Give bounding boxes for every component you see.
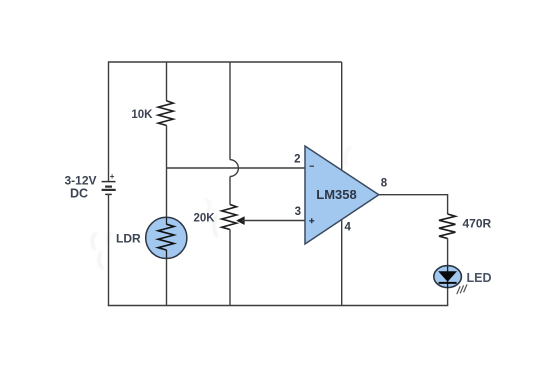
wire 10K branch upper	[166, 62, 168, 101]
potentiometer R3 20K	[222, 205, 237, 230]
wire inverting input pin2	[167, 167, 306, 169]
op-amp plus mark	[309, 218, 314, 223]
resistor R1 10K	[158, 101, 173, 126]
svg-text:470R: 470R	[463, 217, 492, 231]
wire pot lower lead	[229, 229, 231, 305]
pot wiper arrow	[237, 217, 245, 225]
wire pot branch upper	[229, 62, 231, 160]
wire left rail lower	[108, 194, 110, 306]
svg-text:20K: 20K	[194, 213, 216, 225]
svg-text:2: 2	[294, 153, 300, 165]
svg-text:10K: 10K	[131, 109, 153, 121]
svg-text:LED: LED	[467, 271, 492, 285]
wire LDR top lead	[166, 168, 168, 218]
op-amp U1 LM358	[305, 146, 379, 244]
wire top rail	[109, 61, 342, 63]
wire hop to pot	[229, 177, 231, 205]
wire output	[379, 194, 448, 196]
wire R1 bottom lead	[166, 125, 168, 168]
wire R4 to LED	[447, 238, 449, 266]
resistor R4 470R	[439, 214, 455, 239]
wire noninverting input pin3	[242, 220, 306, 222]
svg-text:LDR: LDR	[116, 232, 141, 246]
wire output corner down	[447, 194, 449, 214]
svg-text:3-12V: 3-12V	[64, 174, 96, 188]
LED light rays	[457, 284, 467, 294]
svg-text:4: 4	[345, 221, 352, 233]
LED D1	[434, 266, 462, 288]
wire bottom rail	[108, 305, 449, 307]
battery BT1	[102, 182, 116, 195]
smudge artifacts	[92, 147, 351, 269]
wire op-amp supply vertical	[341, 62, 343, 306]
wire LDR bottom lead	[166, 258, 168, 305]
svg-text:+: +	[110, 172, 115, 181]
wire hop over pin2 wire	[230, 160, 238, 177]
svg-text:8: 8	[381, 178, 388, 190]
op-amp minus mark	[310, 165, 315, 167]
svg-text:LM358: LM358	[316, 187, 356, 202]
svg-text:3: 3	[295, 206, 301, 218]
svg-text:DC: DC	[70, 187, 88, 201]
wire left rail upper	[108, 61, 110, 181]
LDR R2	[146, 217, 187, 258]
wire LED to bottom rail	[447, 288, 449, 306]
